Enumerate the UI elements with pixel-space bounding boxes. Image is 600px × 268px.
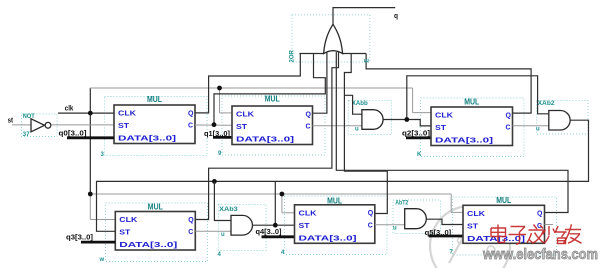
MUL block U6 — [463, 196, 545, 244]
watermark chinese char 1 dian — [491, 225, 506, 243]
svg-text:ST: ST — [467, 223, 479, 230]
svg-text:AbT2: AbT2 — [395, 201, 409, 207]
dotted selection box MUL U3 — [421, 98, 525, 157]
svg-text:Q: Q — [306, 111, 312, 118]
bus q4 to U5 DATA — [262, 235, 295, 238]
svg-text:37: 37 — [23, 132, 31, 138]
svg-text:CLK: CLK — [118, 111, 136, 118]
AND gate XAbb — [362, 110, 383, 130]
svg-text:Q: Q — [188, 217, 194, 224]
svg-text:clk: clk — [65, 105, 74, 112]
svg-text:XAb3: XAb3 — [219, 207, 238, 213]
svg-text:st: st — [8, 117, 14, 124]
svg-text:9: 9 — [218, 151, 222, 157]
svg-text:www.elecfans.com: www.elecfans.com — [482, 247, 598, 263]
svg-text:u: u — [536, 127, 540, 133]
wire st input — [12, 124, 31, 126]
junction clk-4 — [280, 192, 285, 197]
svg-text:XAbb: XAbb — [352, 101, 368, 107]
inverter NOT 37 — [31, 119, 51, 132]
junction clk-1 — [88, 111, 93, 116]
dotted selection box AND gate XAb3 — [219, 205, 267, 251]
svg-text:q: q — [394, 13, 398, 20]
svg-text:4: 4 — [218, 252, 222, 258]
bus q1 to U2 DATA — [213, 136, 232, 139]
svg-text:w: w — [99, 257, 105, 263]
AND gate XAT2 — [405, 209, 427, 229]
dotted selection box MUL U6 — [453, 197, 557, 255]
svg-text:u: u — [393, 226, 397, 232]
svg-text:DATA[3..0]: DATA[3..0] — [435, 138, 493, 145]
watermark chinese char 3 fa — [527, 225, 544, 244]
svg-text:MUL: MUL — [148, 202, 163, 211]
svg-text:CLK: CLK — [435, 113, 453, 120]
bus q5 to U6 DATA — [429, 235, 463, 238]
svg-text:C: C — [506, 125, 511, 132]
wire inverter output to U1 ST — [51, 124, 114, 126]
svg-text:2OR: 2OR — [290, 49, 296, 62]
svg-text:ST: ST — [299, 223, 311, 230]
wire XAbb output to U3.ST and up to XAb2 — [383, 76, 549, 126]
junction q1 — [212, 122, 217, 127]
wire XAb2 output down to row2 carry line — [97, 120, 589, 231]
dotted selection box MUL U4 — [106, 203, 208, 262]
watermark chinese char 4 shao — [543, 226, 567, 244]
dotted selection box AND gate XAbb — [349, 101, 392, 135]
svg-text:q3[3..0]: q3[3..0] — [66, 235, 93, 242]
svg-text:Q: Q — [537, 211, 543, 218]
wire U6.Q up to OR input s5mid — [336, 52, 568, 213]
OR gate OR6 — [299, 24, 366, 53]
dotted selection box MUL U5 — [285, 196, 388, 255]
svg-text:CLK: CLK — [119, 217, 137, 224]
svg-text:MUL: MUL — [327, 196, 342, 205]
ghost watermark logo circle — [430, 206, 510, 268]
watermark chinese char 5 you — [564, 224, 582, 243]
wire U4.C to AND XAb3 input B — [195, 230, 231, 232]
watermark chinese char 2 zi — [509, 227, 527, 245]
svg-text:q4[3..0]: q4[3..0] — [256, 229, 282, 236]
wire q1 branch up to OR input s2 — [214, 54, 325, 125]
svg-text:C: C — [188, 123, 193, 130]
junction clk-2 — [217, 86, 222, 91]
wire U5.Q up join AND XAbb input A and OR s5 — [344, 54, 387, 214]
svg-text:Q: Q — [368, 210, 374, 217]
svg-text:CLK: CLK — [236, 112, 254, 119]
svg-text:DATA[3..0]: DATA[3..0] — [236, 137, 294, 144]
svg-text:MUL: MUL — [464, 98, 479, 107]
dotted selection box MUL U1 — [105, 97, 208, 156]
svg-text:NOT: NOT — [23, 114, 35, 120]
svg-text:ST: ST — [435, 125, 447, 132]
svg-text:MUL: MUL — [147, 95, 162, 104]
MUL block U1 — [114, 95, 195, 144]
wire XAb3 output to U5.ST — [252, 224, 294, 226]
wire U3.C to AND XAb2 input B — [513, 125, 549, 127]
wire U2.C to AND XAbb input B — [313, 125, 362, 127]
svg-text:MUL: MUL — [265, 95, 280, 104]
wire U1.Q to OR input s1 — [195, 54, 300, 113]
junction carry row2 — [212, 179, 217, 184]
junction q4 — [273, 223, 278, 228]
svg-text:DATA[3..0]: DATA[3..0] — [299, 235, 357, 242]
svg-text:CLK: CLK — [467, 211, 485, 218]
dotted selection box AND gate XAb2 — [537, 101, 589, 135]
dotted selection box AND gate XAT2 — [393, 200, 441, 234]
svg-text:K: K — [417, 152, 422, 158]
MUL block U4 — [115, 202, 195, 250]
MUL block U2 — [232, 95, 313, 145]
bus q3 to U4 DATA — [81, 241, 115, 244]
svg-text:C: C — [188, 229, 193, 236]
dotted selection box inverter U7 — [22, 114, 58, 137]
dotted selection box MUL U2 — [222, 96, 325, 155]
dotted selection box OR gate — [292, 15, 370, 62]
wire U4.Q up to OR input s4 — [195, 51, 338, 220]
junction clk-3 — [88, 192, 93, 197]
svg-text:ST: ST — [119, 230, 131, 237]
AND gate XAb2 — [549, 111, 570, 131]
svg-text:MUL: MUL — [496, 196, 511, 205]
bus q0 to U1 DATA — [67, 136, 114, 139]
wire q4 branch up — [274, 181, 276, 225]
wire clk net — [58, 88, 463, 220]
svg-text:Q: Q — [188, 110, 194, 117]
svg-text:Q: Q — [506, 112, 512, 119]
svg-text:DATA[3..0]: DATA[3..0] — [119, 242, 177, 249]
MUL block U3 — [431, 98, 513, 146]
svg-text:3: 3 — [101, 152, 105, 158]
svg-text:E: E — [365, 58, 371, 62]
svg-text:CLK: CLK — [299, 210, 317, 217]
wire U1.C to U2.ST — [195, 124, 232, 126]
svg-text:u: u — [221, 232, 225, 238]
svg-text:ST: ST — [118, 123, 130, 130]
svg-text:C: C — [306, 124, 311, 131]
bus q2 to U3 DATA — [406, 136, 431, 139]
svg-text:C: C — [368, 222, 373, 229]
wire carry branch to AND XAb3 input A — [214, 181, 231, 220]
AND gate XAb3 — [231, 215, 252, 235]
svg-text:ST: ST — [236, 124, 248, 131]
wire XAT2 output to U6.ST — [426, 219, 463, 224]
junction q2 — [404, 117, 409, 122]
wire U5.C to AND XAT2 input B — [375, 224, 405, 226]
wire U2.Q to OR input s3 — [313, 50, 327, 113]
wire OR output to q — [333, 8, 395, 25]
svg-text:XAb2: XAb2 — [538, 101, 556, 107]
MUL block U5 — [295, 196, 375, 243]
wire U3.Q to OR input s6 — [366, 54, 531, 114]
svg-text:DATA[3..0]: DATA[3..0] — [118, 136, 176, 143]
svg-text:u: u — [355, 127, 359, 133]
wire U6.C stub — [545, 224, 554, 226]
